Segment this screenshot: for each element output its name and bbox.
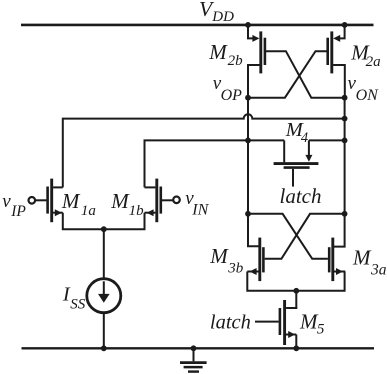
input port v_IN terminal (162, 197, 180, 204)
svg-text:M: M (208, 40, 228, 64)
svg-text:M: M (61, 189, 81, 213)
label I_SS (62, 283, 86, 312)
label latch (M5 gate) (210, 312, 251, 334)
transistor M3a (NMOS, cross-coupled right) (329, 238, 345, 282)
svg-text:DD: DD (211, 9, 234, 25)
label M_5 (299, 309, 325, 337)
svg-text:latch: latch (210, 312, 251, 334)
svg-text:3b: 3b (227, 261, 244, 277)
label M_1b (110, 189, 144, 219)
svg-text:2b: 2b (228, 53, 244, 69)
junction dot lower-X / v_OP (245, 211, 251, 217)
svg-text:1a: 1a (81, 203, 96, 219)
svg-text:IP: IP (10, 203, 26, 220)
wire cross-couple M2a gate to node vOP (248, 51, 327, 97)
svg-text:SS: SS (70, 296, 86, 312)
junction dot ground symbol / rail (191, 345, 197, 351)
svg-text:ON: ON (356, 87, 380, 104)
junction dot M4 wire / v_ON (342, 138, 348, 144)
junction dot VDD / M2b source (245, 22, 251, 28)
wire node v_ON vertical (M2a drain to M3a drain) (334, 98, 345, 247)
transistor M1b (NMOS input right) (145, 179, 161, 223)
label M_2b (208, 40, 243, 69)
wire tail to current source (103, 229, 105, 279)
junction dot M3 sources / M5 drain (293, 288, 299, 294)
label M_4 (285, 119, 308, 146)
current source I_SS (87, 279, 121, 313)
wire common source node of M1a/M1b (63, 213, 145, 230)
wire M5 drain (295, 291, 297, 308)
junction dot I_SS / ground rail (101, 345, 107, 351)
wire M1a drain to node vON (hop over vOP) (63, 114, 345, 187)
svg-text:M: M (110, 189, 130, 213)
junction dot M5 source / ground rail (293, 345, 299, 351)
label v_IP (2, 191, 26, 220)
transistor M4 (equalizing switch, horizontal) (274, 140, 319, 186)
junction dot wire1 / v_ON (342, 116, 348, 122)
svg-text:M: M (352, 246, 372, 270)
svg-text:v: v (2, 191, 11, 212)
node v_ON label (348, 73, 380, 104)
node v_OP label (213, 73, 242, 104)
junction dot common source / tail (101, 226, 107, 232)
wire M3b/M3a common sources (247, 272, 344, 291)
wire cross-couple M2b gate to node vON (266, 51, 345, 97)
svg-text:OP: OP (221, 87, 243, 104)
transistor M2b (PMOS, cross-coupled left) (248, 25, 265, 98)
label M_1a (61, 189, 96, 219)
svg-text:4: 4 (301, 130, 308, 146)
wire M4 right terminal to node vON (309, 139, 345, 141)
label M_3a (352, 246, 387, 279)
label M_3b (209, 244, 244, 276)
junction dot VDD / M2a source (342, 22, 348, 28)
svg-text:3a: 3a (370, 261, 387, 278)
junction dot node v_ON (342, 95, 348, 101)
transistor M3b (NMOS, cross-coupled left) (247, 238, 263, 282)
svg-text:5: 5 (317, 322, 325, 338)
ground symbol (180, 348, 207, 371)
wire current source to ground rail (103, 313, 105, 349)
wire node v_OP vertical (M2b drain to M3b drain) (248, 98, 259, 247)
svg-text:M: M (209, 244, 229, 268)
label v_IN (185, 188, 209, 218)
wire VDD power rail (21, 24, 374, 27)
junction dot node v_OP (245, 95, 251, 101)
svg-text:2a: 2a (366, 54, 381, 70)
junction dot wire2 / v_OP (245, 138, 251, 144)
label latch (M4 gate) (280, 184, 322, 208)
svg-text:1b: 1b (129, 203, 145, 219)
wire M1b drain to node vOP and M4 left terminal (145, 140, 285, 187)
net label V_DD (199, 0, 234, 25)
junction dot lower-X / v_ON (342, 211, 348, 217)
wire cross-couple node vOP to M3a gate (248, 214, 328, 259)
svg-text:IN: IN (191, 201, 209, 218)
label M_2a (350, 41, 380, 71)
transistor M5 (NMOS tail switch) (255, 300, 296, 348)
wire ground rail (22, 347, 375, 349)
svg-text:latch: latch (280, 184, 322, 208)
transistor M2a (PMOS, cross-coupled right) (328, 25, 345, 98)
wire cross-couple node vON to M3b gate (265, 214, 345, 259)
transistor M1a (NMOS input left) (48, 179, 63, 223)
input port v_IP terminal (29, 197, 47, 204)
